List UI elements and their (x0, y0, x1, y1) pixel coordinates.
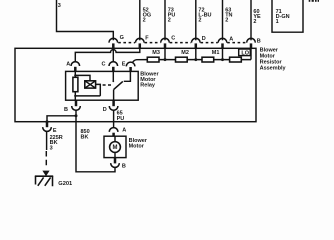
node: junction relay B / motor return (75, 114, 78, 117)
svg-text:PU: PU (117, 116, 125, 122)
svg-text:B: B (64, 107, 68, 113)
resistor M2 (176, 57, 188, 62)
svg-text:C: C (102, 62, 106, 68)
relay internal: switch pivot to pin D (113, 90, 115, 101)
svg-text:Motor: Motor (129, 143, 145, 149)
wire: connector A drop to chain (222, 48, 224, 59)
wire: motor return loop (850 BK) (76, 116, 115, 172)
node: junction D on chain (194, 58, 197, 61)
svg-text:D: D (202, 36, 206, 42)
resistor LO (230, 57, 242, 62)
node: junction C on chain (164, 58, 167, 61)
relay internal: left rail from pin A (74, 71, 76, 100)
connector C (resistor assembly) (161, 38, 170, 48)
wire: F drop to relay pin A (with hop over G-C wire) (75, 48, 140, 61)
wire: relay B to junction (75, 110, 77, 116)
svg-text:G201: G201 (58, 181, 72, 187)
connector G (109, 38, 118, 48)
relay internal: coil (box with X) (85, 81, 96, 88)
wire 60 YE 2 (circuit to connector B) (250, 0, 252, 40)
resistor M3 (147, 57, 159, 62)
svg-text:M3: M3 (152, 50, 160, 56)
svg-text:BK: BK (81, 134, 89, 140)
relay internal: mechanical link dashes (103, 84, 111, 86)
svg-text:A: A (66, 62, 70, 68)
wire 63 TN 2 (circuit to connector A) (222, 0, 224, 40)
svg-text:B: B (257, 38, 261, 44)
wire 72 L-BU 2 (circuit to connector D) (195, 0, 197, 40)
connector F (136, 38, 145, 48)
wire: blower switch pin 3 feed to connector G (57, 0, 114, 40)
relay internal: coil branch wires (75, 75, 100, 96)
dashed harness connector line (118, 42, 246, 44)
svg-text:2: 2 (143, 18, 146, 24)
svg-text:3: 3 (58, 3, 61, 9)
relay internal: resistor R (73, 77, 78, 91)
wire: ground drop (solid then dashed) (46, 131, 48, 150)
svg-text:Relay: Relay (140, 83, 156, 89)
svg-text:A: A (229, 37, 233, 43)
relay pin B connector (72, 100, 81, 110)
wire: connector C drop to chain (164, 48, 166, 59)
svg-text:E: E (53, 128, 57, 134)
label LO (boxed) (239, 49, 251, 57)
motor connector B (111, 158, 120, 168)
wire 73 PU 2 (circuit to connector C) (164, 0, 166, 40)
wire: junction to ground drop (47, 116, 76, 122)
box: wire 71 D-GN 1 component (top right, cut off) (272, 0, 303, 32)
relay internal: switch arm (114, 81, 123, 89)
svg-text:M: M (113, 145, 118, 151)
relay internal: switch contact from E (124, 71, 131, 81)
connector B (resistor assembly) (247, 38, 256, 49)
wire: relay pin E to resistor chain (132, 60, 147, 63)
node: junction ground drop on bottom bus (46, 120, 49, 123)
relay pin A connector (71, 62, 80, 72)
svg-text:2: 2 (253, 19, 256, 25)
svg-text:A: A (122, 127, 126, 133)
resistor chain wire segments (159, 59, 251, 61)
svg-text:2: 2 (198, 18, 201, 24)
box: blower motor (104, 136, 126, 157)
motor connector A (109, 128, 118, 137)
cut-off text fragment top right (309, 0, 319, 2)
connector A (resistor assembly) (218, 38, 227, 48)
svg-text:3: 3 (50, 145, 53, 151)
box: blower motor relay (66, 71, 139, 100)
box: blower motor resistor assembly outline (big rectangle) (15, 48, 256, 121)
node: junction A on chain (221, 58, 224, 61)
resistor M1 (202, 57, 214, 62)
svg-text:M2: M2 (181, 50, 189, 56)
relay pin C connector (109, 62, 118, 72)
svg-text:LO: LO (241, 51, 249, 57)
svg-text:2: 2 (225, 18, 228, 24)
svg-text:M1: M1 (212, 50, 220, 56)
svg-text:1: 1 (276, 19, 279, 25)
svg-text:D: D (103, 107, 107, 113)
svg-text:C: C (171, 36, 175, 42)
svg-text:E: E (122, 62, 126, 68)
wire: connector B drop to chain end (250, 49, 252, 60)
node: junction G wire / top edge (112, 47, 115, 50)
wire: connector D drop to chain (195, 48, 197, 59)
svg-text:Assembly: Assembly (260, 66, 287, 72)
wire: G to relay pin C (112, 48, 114, 61)
connector D (resistor assembly) (192, 38, 201, 48)
ground G201 symbol (35, 171, 53, 187)
relay pin E connector (126, 62, 135, 71)
svg-text:2: 2 (168, 18, 171, 24)
svg-text:B: B (122, 163, 126, 169)
relay internal: switch contact from C (112, 71, 114, 81)
ground connector E (43, 122, 52, 131)
svg-text:G: G (120, 35, 124, 41)
wire: relay D to blower motor (65 PU) (113, 110, 115, 127)
relay pin D connector (109, 100, 118, 110)
wire 52 OG 2 (circuit to connector F) (139, 0, 141, 40)
